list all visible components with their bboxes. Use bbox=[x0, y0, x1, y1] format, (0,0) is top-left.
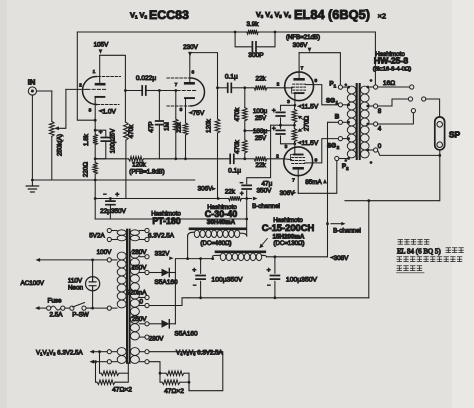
triode V2 cathode bbox=[185, 97, 194, 99]
label 11.5V upper bbox=[297, 104, 302, 108]
svg-text:100μ350V: 100μ350V bbox=[286, 276, 318, 283]
svg-text:100V: 100V bbox=[97, 249, 113, 256]
PT 6.3V top taps bbox=[140, 230, 146, 232]
svg-text:Neon: Neon bbox=[68, 284, 84, 291]
wire input to volume pot bbox=[37, 90, 52, 92]
svg-text:0: 0 bbox=[139, 298, 143, 305]
wire V5 plate to P2 bbox=[298, 161, 337, 194]
capacitor 100u25V V1 cathode bypass bbox=[95, 130, 106, 137]
wire AC line upper bbox=[36, 258, 41, 262]
svg-text:306V: 306V bbox=[198, 186, 214, 193]
input jack IN bbox=[28, 87, 36, 95]
svg-text:85mA: 85mA bbox=[305, 179, 322, 186]
svg-text:1.8k: 1.8k bbox=[83, 133, 90, 146]
switch contact to SP bbox=[422, 97, 426, 101]
svg-text:47Ω×2: 47Ω×2 bbox=[164, 388, 184, 395]
svg-text:×2: ×2 bbox=[378, 12, 387, 21]
capacitor 100u25V lower bypass bbox=[280, 125, 282, 128]
terminal P1 bbox=[338, 85, 342, 89]
choke C-30-40 bbox=[187, 236, 189, 259]
svg-text:250V: 250V bbox=[132, 316, 148, 323]
choke C-15-200CH bbox=[212, 256, 214, 259]
wire V3 plate to P1 bbox=[299, 53, 340, 85]
svg-text:(8k:16-8-4-0Ω): (8k:16-8-4-0Ω) bbox=[373, 67, 411, 73]
svg-text:47μ: 47μ bbox=[262, 180, 273, 187]
wire right heater leads bbox=[149, 352, 223, 391]
resistor 22k upper grid bbox=[243, 86, 246, 89]
wire V5 screen to SG2 bbox=[313, 139, 338, 163]
triode V2 heater dashes bbox=[167, 77, 189, 79]
resistor 47ohm left lower bbox=[96, 362, 98, 383]
potentiometer 250k(A) volume bbox=[51, 91, 53, 121]
PT HV winding bbox=[130, 250, 139, 258]
wire choke1 riser to 306V rail bbox=[246, 199, 248, 237]
svg-text:−: − bbox=[103, 192, 106, 198]
svg-text:3: 3 bbox=[285, 144, 288, 150]
wire ground return to PSU bbox=[368, 201, 370, 298]
svg-text:0.022μ: 0.022μ bbox=[136, 75, 157, 82]
svg-text:16Ω: 16Ω bbox=[383, 80, 395, 87]
svg-text:S5A160: S5A160 bbox=[154, 279, 178, 286]
label B-channel left bbox=[253, 197, 258, 201]
svg-text:S5A160: S5A160 bbox=[174, 331, 198, 338]
PT 280V tap lower bbox=[145, 335, 149, 339]
resistor 470k lower grid leak bbox=[244, 131, 246, 140]
pentode V5 grid lead g1 bbox=[284, 158, 292, 161]
svg-text:47Ω×2: 47Ω×2 bbox=[112, 386, 132, 393]
svg-text:7: 7 bbox=[175, 82, 178, 88]
PT 280V tap upper bbox=[145, 255, 149, 259]
power switch P-SW bbox=[65, 307, 70, 309]
svg-text:7: 7 bbox=[292, 178, 295, 184]
svg-text:+: + bbox=[272, 107, 276, 114]
svg-text:100μ: 100μ bbox=[253, 108, 268, 115]
wire PT centre tap to ground bbox=[149, 298, 188, 306]
svg-text:22k: 22k bbox=[256, 162, 267, 169]
svg-text:(NFB=21dB): (NFB=21dB) bbox=[286, 34, 320, 41]
svg-text:P-SW: P-SW bbox=[72, 311, 88, 318]
PT primary winding bbox=[117, 252, 126, 260]
svg-text:(6BQ5): (6BQ5) bbox=[328, 7, 370, 22]
capacitor 0.022u coupling bbox=[125, 90, 141, 92]
triode V2 plate bbox=[185, 82, 193, 85]
svg-text:220mA: 220mA bbox=[127, 289, 148, 296]
wire B tap to B+ line bbox=[328, 122, 339, 256]
resistor 470k V1 plate load bbox=[124, 91, 126, 123]
capacitor 0.1u upper bbox=[218, 87, 227, 89]
triode V1 cathode bbox=[95, 96, 104, 98]
wire 306V rail bbox=[95, 198, 228, 200]
PT core bbox=[127, 230, 130, 363]
resistor 270ohm lower cathode bbox=[293, 124, 296, 127]
svg-text:0.1μ: 0.1μ bbox=[225, 74, 238, 81]
svg-text:B-channel: B-channel bbox=[333, 228, 361, 235]
svg-text:470k: 470k bbox=[234, 107, 241, 122]
caption line4 zenkairozu bbox=[397, 266, 422, 271]
svg-text:11.5V: 11.5V bbox=[302, 140, 319, 147]
label 308V bbox=[329, 256, 333, 260]
capacitor 0.1u lower bbox=[230, 154, 234, 163]
wire V1 grid line bbox=[66, 88, 87, 90]
resistor 1M V2 grid leak bbox=[175, 91, 177, 120]
wire 16 tap stub bbox=[378, 86, 410, 88]
svg-text:IN: IN bbox=[28, 78, 36, 87]
svg-text:30H40mA: 30H40mA bbox=[207, 219, 236, 226]
pentode V3 cathode lead bbox=[294, 93, 296, 105]
triode V1 plate bbox=[96, 83, 104, 86]
pentode V5 screen lead g2 bbox=[305, 162, 314, 164]
capacitor 100u350V second bbox=[274, 257, 276, 274]
capacitor 100u25V upper bypass bbox=[281, 105, 295, 110]
wire V3 screen to SG1 bbox=[313, 85, 338, 105]
svg-text:(PFB=1.8dB): (PFB=1.8dB) bbox=[129, 169, 164, 176]
svg-text:100μ: 100μ bbox=[253, 128, 268, 135]
capacitor 100u350V first bbox=[200, 259, 202, 274]
PT left 6.3V winding bbox=[117, 348, 126, 356]
triode V1 heater dashes bbox=[98, 76, 121, 78]
svg-text:EL84: EL84 bbox=[294, 7, 325, 22]
triode V1 grid dashes bbox=[87, 88, 106, 90]
terminal B bbox=[338, 120, 342, 124]
wire choke2 to 308V line bbox=[267, 256, 328, 258]
PT right 6.3V taps bbox=[140, 351, 146, 353]
resistor 270ohm upper cathode bbox=[294, 104, 297, 107]
resistor 120k V2 plate load bbox=[217, 88, 219, 119]
resistor 47ohm left upper bbox=[100, 352, 102, 374]
pentode V3 plate lead bbox=[298, 53, 300, 80]
wire 4 tap stub bbox=[378, 113, 414, 124]
svg-text:100μ25V: 100μ25V bbox=[110, 128, 117, 153]
label 1.0V cathode V1 bbox=[98, 109, 103, 113]
svg-text:9: 9 bbox=[314, 78, 317, 84]
label 75V cathode V2 bbox=[188, 111, 193, 115]
wire preamp ground rail bbox=[32, 179, 194, 181]
svg-text:2: 2 bbox=[79, 83, 82, 89]
svg-text:25V: 25V bbox=[255, 115, 267, 122]
diode S5A160 upper bbox=[162, 269, 170, 277]
resistor 470k upper grid leak bbox=[244, 88, 246, 108]
svg-text:470k: 470k bbox=[128, 124, 135, 139]
svg-text:B-channel: B-channel bbox=[252, 203, 280, 210]
svg-text:V1V2V3 6.3V2.5A: V1V2V3 6.3V2.5A bbox=[36, 350, 84, 357]
PT 0 tap bbox=[145, 303, 149, 307]
svg-text:1M: 1M bbox=[164, 122, 171, 131]
svg-text:8: 8 bbox=[180, 107, 183, 113]
OPT primary tap stubs bbox=[343, 86, 349, 88]
wire bias node to 47u bbox=[245, 130, 271, 132]
svg-text:0.1μ: 0.1μ bbox=[228, 167, 241, 174]
terminal SG1 bbox=[338, 103, 342, 107]
svg-text:280V: 280V bbox=[132, 249, 148, 256]
svg-text:332V: 332V bbox=[155, 251, 171, 258]
resistor 3.9k NFB bbox=[247, 30, 259, 35]
OPT secondary tap stubs bbox=[368, 86, 374, 88]
capacitor 47u350V bbox=[242, 185, 251, 189]
terminal 8 tap bbox=[374, 104, 378, 108]
wire 0 tap to speaker return bbox=[378, 151, 440, 156]
pentode V5 cathode lead bbox=[294, 144, 296, 155]
svg-text:PT-180: PT-180 bbox=[152, 216, 180, 226]
svg-text:350V: 350V bbox=[257, 188, 273, 195]
capacitor 22u350V preamp filter bbox=[94, 180, 96, 219]
svg-text:11.5V: 11.5V bbox=[302, 104, 319, 111]
svg-text:22k: 22k bbox=[176, 122, 183, 133]
svg-text:3.9k: 3.9k bbox=[247, 21, 260, 28]
wire speaker ground return bbox=[345, 155, 440, 200]
PT 250V tap upper bbox=[145, 270, 149, 274]
svg-text:110V: 110V bbox=[68, 277, 83, 284]
diode S5A160 lower bbox=[162, 320, 170, 328]
capacitor 300P NFB bbox=[235, 32, 251, 47]
svg-text:25V: 25V bbox=[255, 135, 267, 142]
wire V2 plate node bbox=[190, 53, 218, 88]
wire 250V lower to diode bbox=[149, 323, 161, 325]
pentode V3 grid lead g1 bbox=[284, 87, 293, 89]
resistor 1.8k V1 cathode bbox=[94, 120, 96, 134]
svg-text:ECC83: ECC83 bbox=[149, 8, 189, 22]
svg-text:+: + bbox=[192, 267, 196, 274]
svg-text:(DC=130Ω): (DC=130Ω) bbox=[273, 240, 304, 247]
resistor 22k lower grid bbox=[235, 158, 245, 160]
terminal 0 tap bbox=[374, 148, 378, 152]
wire 8 tap to switch bbox=[378, 99, 409, 106]
svg-text:6.3V2.5A: 6.3V2.5A bbox=[148, 232, 175, 239]
wire coupling to V2 grid bbox=[159, 90, 177, 92]
svg-text:2: 2 bbox=[277, 81, 280, 87]
resistor 47ohm right upper bbox=[160, 372, 166, 374]
svg-text:306V: 306V bbox=[293, 42, 309, 49]
triode V2 grid dashes bbox=[177, 90, 197, 92]
pentode V5 EL84 lower bbox=[284, 147, 313, 176]
OPT secondary winding bbox=[361, 86, 370, 94]
svg-text:250k(A): 250k(A) bbox=[57, 134, 64, 156]
terminal 16 ohm tap bbox=[374, 85, 378, 89]
resistor 22k B+ dropper bbox=[229, 196, 242, 201]
wire rectifier output bbox=[175, 259, 187, 324]
svg-text:(DC=460Ω): (DC=460Ω) bbox=[200, 240, 231, 247]
svg-text:V4V5V6 6.3V2.5A: V4V5V6 6.3V2.5A bbox=[176, 350, 224, 357]
PT 5V winding bbox=[117, 230, 126, 235]
svg-text:5V2A: 5V2A bbox=[89, 232, 105, 239]
svg-text:−: − bbox=[240, 180, 243, 186]
svg-text:B: B bbox=[335, 114, 340, 121]
speaker SP bbox=[435, 117, 445, 150]
svg-text:0: 0 bbox=[378, 143, 382, 150]
terminal 4 tap bbox=[374, 122, 378, 126]
pentode V3 EL84 upper bbox=[285, 72, 314, 101]
svg-text:SP: SP bbox=[449, 129, 461, 139]
svg-text:+: + bbox=[115, 192, 119, 199]
svg-text:75V: 75V bbox=[193, 110, 205, 117]
terminal P2 bbox=[335, 156, 339, 160]
PT 100V tap bbox=[107, 258, 111, 262]
resistor 22k V2 cathode bbox=[185, 122, 187, 123]
wire choke feed line bbox=[95, 218, 247, 220]
wire NFB top rail bbox=[77, 31, 235, 33]
svg-text:3: 3 bbox=[89, 108, 92, 114]
svg-text:1: 1 bbox=[93, 69, 96, 75]
svg-text:C-30-40: C-30-40 bbox=[205, 209, 238, 219]
fuse 2.5A bbox=[35, 306, 40, 310]
svg-text:230V: 230V bbox=[183, 44, 199, 51]
svg-text:47P: 47P bbox=[148, 121, 155, 132]
svg-text:+: + bbox=[240, 191, 244, 197]
wire V1 plate node bbox=[100, 55, 126, 90]
PT left 6.3V taps bbox=[111, 351, 117, 353]
capacitor 47P bbox=[158, 91, 160, 120]
PT centre tap 220mA bbox=[145, 295, 149, 299]
OPT primary winding bbox=[347, 86, 356, 94]
svg-text:C-15-200CH: C-15-200CH bbox=[262, 222, 315, 233]
svg-text:2: 2 bbox=[276, 154, 279, 160]
resistor 47ohm right lower bbox=[160, 381, 162, 383]
wire jack ground drop bbox=[31, 95, 33, 186]
label B-channel right bbox=[331, 223, 343, 225]
svg-text:22k: 22k bbox=[256, 75, 267, 82]
svg-text:250V: 250V bbox=[132, 264, 148, 271]
svg-text:2.5A: 2.5A bbox=[50, 311, 64, 318]
svg-text:4: 4 bbox=[378, 126, 382, 133]
resistor 220ohm V1 cathode lower bbox=[94, 157, 97, 160]
svg-text:470k: 470k bbox=[234, 139, 241, 154]
caption line3 pull power amp bbox=[397, 257, 462, 262]
svg-text:EL 84 (6 BQ 5): EL 84 (6 BQ 5) bbox=[397, 248, 441, 256]
svg-text:300P: 300P bbox=[248, 52, 264, 59]
terminal SG2 bbox=[338, 137, 342, 141]
wire left heater leads bbox=[90, 350, 95, 354]
svg-text:280V: 280V bbox=[149, 335, 165, 342]
wire main ground rail bbox=[188, 297, 369, 299]
svg-text:+: + bbox=[267, 267, 271, 274]
PT primary bottom tap bbox=[107, 306, 111, 310]
svg-text:−: − bbox=[267, 283, 270, 289]
caption line1 dai-1-zu bbox=[398, 240, 429, 245]
svg-text:220Ω: 220Ω bbox=[83, 162, 90, 178]
PT 6.3V top winding bbox=[130, 230, 139, 235]
PT right 6.3V winding bbox=[130, 348, 139, 356]
pointer to choke2 bbox=[262, 239, 268, 246]
svg-text:3: 3 bbox=[287, 99, 290, 105]
svg-text:120k: 120k bbox=[132, 161, 147, 168]
PT 5V taps bbox=[111, 230, 117, 232]
triode V2 envelope arc bbox=[191, 78, 205, 106]
svg-text:1.0V: 1.0V bbox=[102, 108, 116, 115]
pentode V5 plate lead bbox=[297, 168, 299, 193]
svg-text:105V: 105V bbox=[94, 42, 110, 49]
svg-text:7: 7 bbox=[301, 66, 304, 72]
svg-text:SG: SG bbox=[327, 142, 336, 149]
ground symbol bbox=[26, 186, 38, 192]
svg-text:308V: 308V bbox=[334, 255, 350, 262]
wire 250V upper to diode bbox=[149, 272, 161, 274]
svg-text:6: 6 bbox=[191, 70, 194, 76]
svg-text:22k: 22k bbox=[225, 188, 236, 195]
svg-text:120k: 120k bbox=[206, 118, 213, 133]
svg-text:+: + bbox=[99, 129, 103, 136]
svg-text:−: − bbox=[193, 283, 196, 289]
OPT core bbox=[357, 84, 360, 159]
label 11.5V lower bbox=[297, 141, 302, 145]
svg-text:8: 8 bbox=[378, 108, 382, 115]
svg-text:HW-25-8: HW-25-8 bbox=[374, 56, 408, 66]
PT 250V tap lower bbox=[145, 322, 149, 326]
svg-text:SG: SG bbox=[326, 97, 335, 104]
svg-text:22μ350V: 22μ350V bbox=[100, 208, 126, 215]
triode V1 envelope arc bbox=[83, 77, 97, 105]
wire NFB branch to cathode bbox=[77, 32, 95, 120]
svg-text:100μ350V: 100μ350V bbox=[211, 276, 243, 283]
neon lamp 110V bbox=[92, 260, 94, 277]
svg-text:+: + bbox=[272, 125, 276, 132]
svg-text:270Ω: 270Ω bbox=[304, 116, 311, 132]
resistor 120k PFB feedback bbox=[95, 158, 128, 160]
svg-text:Fuse: Fuse bbox=[48, 298, 62, 305]
svg-text:AC100V: AC100V bbox=[21, 280, 45, 287]
pentode V3 screen lead g2 bbox=[306, 84, 314, 86]
